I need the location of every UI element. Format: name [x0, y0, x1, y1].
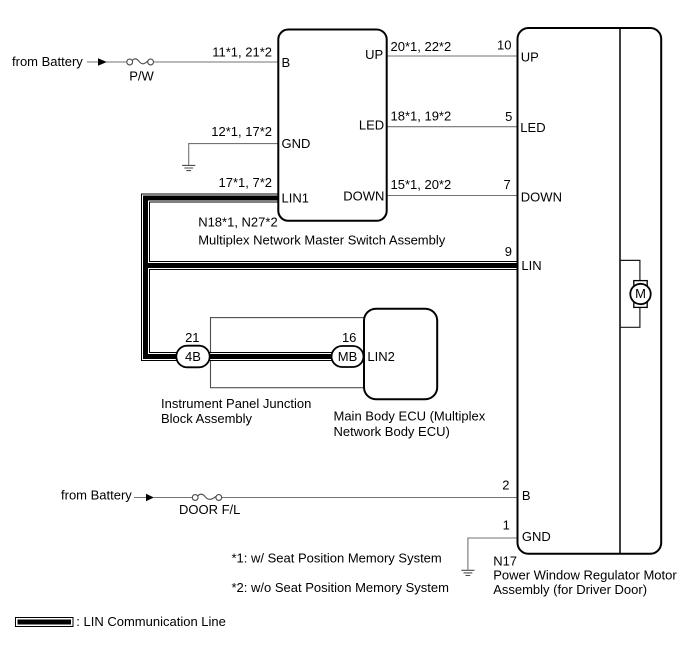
svg-text:N18*1, N27*2: N18*1, N27*2 [198, 215, 278, 230]
svg-text:LIN: LIN [521, 258, 541, 273]
fuse DOOR F/L [192, 494, 221, 500]
svg-text:12*1, 17*2: 12*1, 17*2 [211, 124, 272, 139]
wire DOWN between master switch and motor assembly pin 7 [387, 195, 518, 197]
ground (master switch GND) [182, 165, 195, 170]
svg-text:Main Body ECU (Multiplex: Main Body ECU (Multiplex [334, 409, 486, 424]
wire UP between master switch and motor assembly pin 10 [387, 55, 518, 57]
connector MB (pin 16) [332, 346, 364, 367]
wire GND pin of master switch to ground [189, 144, 279, 165]
svg-text:UP: UP [521, 50, 539, 65]
svg-text:from Battery: from Battery [61, 487, 132, 502]
svg-text:17*1, 7*2: 17*1, 7*2 [219, 175, 273, 190]
svg-text:GND: GND [282, 136, 311, 151]
wire GND pin 1 of motor assembly to ground [468, 538, 518, 570]
svg-text:DOWN: DOWN [521, 190, 562, 205]
wire LIN communication line network: LIN1 to pin 9 LIN and to connector 4B/MB [146, 198, 518, 357]
svg-text:LIN2: LIN2 [367, 349, 394, 364]
svg-text:18*1, 19*2: 18*1, 19*2 [391, 109, 452, 124]
svg-text:4B: 4B [185, 349, 201, 364]
motor M1 circle [630, 284, 650, 304]
svg-text:7: 7 [503, 177, 510, 192]
svg-text:5: 5 [505, 109, 512, 124]
legend LIN communication line bar [16, 618, 74, 627]
multiplex network master switch assembly N18/N27 box [278, 30, 386, 221]
svg-text:M: M [635, 286, 646, 301]
svg-text:MB: MB [338, 349, 358, 364]
svg-text:Block Assembly: Block Assembly [161, 411, 253, 426]
power window regulator motor assembly N17 box [518, 28, 662, 554]
svg-text:Power Window Regulator Motor: Power Window Regulator Motor [493, 567, 677, 582]
svg-text:10: 10 [497, 37, 511, 52]
inner partition line of N17 box [619, 28, 621, 554]
svg-text:DOOR F/L: DOOR F/L [179, 502, 240, 517]
arrow from Battery (top) [98, 58, 107, 66]
svg-text:B: B [282, 55, 291, 70]
svg-text:11*1, 21*2: 11*1, 21*2 [212, 44, 272, 59]
svg-text:1: 1 [503, 518, 510, 533]
wire from battery (top) through fuse P/W to pin B of master switch [87, 61, 278, 63]
svg-text:: LIN Communication Line: : LIN Communication Line [76, 614, 226, 629]
connector 4B (pin 21) [176, 346, 209, 368]
svg-text:2: 2 [502, 478, 509, 493]
svg-text:N17: N17 [493, 553, 517, 568]
fuse P/W [127, 59, 154, 65]
svg-text:*2: w/o Seat Position Memory S: *2: w/o Seat Position Memory System [232, 580, 449, 595]
svg-text:GND: GND [522, 529, 551, 544]
svg-text:DOWN: DOWN [343, 188, 384, 203]
svg-text:Network Body ECU): Network Body ECU) [334, 424, 450, 439]
wire LED between master switch and motor assembly pin 5 [387, 126, 518, 128]
svg-text:16: 16 [342, 330, 356, 345]
arrow from Battery (bottom) [146, 494, 154, 502]
svg-text:UP: UP [365, 47, 383, 62]
svg-text:LIN1: LIN1 [282, 190, 309, 205]
junction block J1 rectangle (Instrument Panel Junction Block Assembly) [211, 318, 367, 388]
svg-text:from Battery: from Battery [12, 54, 83, 69]
svg-text:20*1, 22*2: 20*1, 22*2 [391, 39, 452, 54]
svg-text:21: 21 [185, 330, 199, 345]
svg-text:P/W: P/W [129, 68, 154, 83]
main body ECU box [364, 309, 437, 400]
motor brush rectangle (bottom) [634, 302, 647, 308]
svg-text:Assembly (for Driver Door): Assembly (for Driver Door) [493, 582, 647, 597]
svg-text:15*1, 20*2: 15*1, 20*2 [391, 177, 452, 192]
wire motor branch bracket [620, 260, 640, 327]
wire from battery (bottom) through fuse DOOR F/L to pin 2 B of motor assembly [134, 497, 518, 499]
svg-text:Instrument Panel Junction: Instrument Panel Junction [161, 396, 311, 411]
svg-text:LED: LED [520, 120, 545, 135]
svg-text:LED: LED [359, 117, 384, 132]
motor brush rectangle (top) [634, 281, 647, 287]
ground (motor assembly GND) [461, 570, 474, 575]
svg-text:9: 9 [505, 244, 512, 259]
svg-text:B: B [522, 488, 531, 503]
svg-text:*1: w/ Seat Position Memory Sy: *1: w/ Seat Position Memory System [232, 550, 442, 565]
svg-text:Multiplex Network Master Switc: Multiplex Network Master Switch Assembly [198, 233, 446, 248]
